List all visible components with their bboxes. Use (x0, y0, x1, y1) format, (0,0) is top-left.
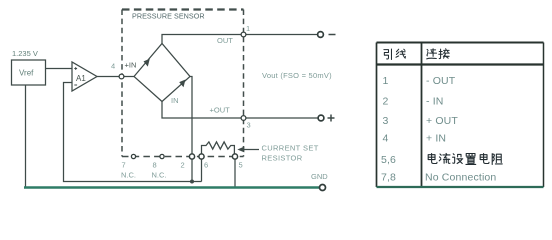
svg-text:6: 6 (204, 161, 208, 170)
svg-text:+OUT: +OUT (210, 106, 231, 115)
svg-text:5: 5 (239, 161, 243, 170)
svg-text:3: 3 (247, 121, 251, 130)
svg-text:GND: GND (311, 172, 328, 181)
svg-text:N.C.: N.C. (121, 171, 136, 180)
svg-text:+ OUT: + OUT (426, 115, 458, 127)
svg-text:7,8: 7,8 (381, 172, 396, 184)
svg-text:IN: IN (171, 96, 179, 105)
svg-text:RESISTOR: RESISTOR (262, 154, 303, 163)
svg-text:Vref: Vref (19, 69, 34, 78)
svg-text:5,6: 5,6 (381, 154, 396, 166)
svg-text:2: 2 (181, 161, 185, 170)
svg-text:A1: A1 (76, 74, 86, 83)
svg-text:2: 2 (383, 96, 389, 108)
svg-text:PRESSURE SENSOR: PRESSURE SENSOR (132, 12, 205, 21)
svg-text:- OUT: - OUT (426, 75, 456, 87)
svg-text:+IN: +IN (125, 61, 137, 70)
svg-text:+ IN: + IN (426, 133, 446, 145)
svg-text:3: 3 (383, 115, 389, 127)
svg-text:1: 1 (383, 75, 389, 87)
svg-text:CURRENT: CURRENT (262, 144, 301, 153)
svg-text:1: 1 (246, 24, 250, 33)
svg-text:4: 4 (111, 62, 115, 71)
svg-text:1.235 V: 1.235 V (12, 49, 38, 58)
svg-text:4: 4 (383, 133, 389, 145)
svg-text:No Connection: No Connection (425, 172, 496, 184)
svg-text:N.C.: N.C. (152, 171, 167, 180)
svg-text:Vout (FSO = 50mV): Vout (FSO = 50mV) (262, 71, 332, 80)
svg-text:7: 7 (122, 161, 126, 170)
svg-text:OUT: OUT (217, 36, 233, 45)
svg-text:8: 8 (153, 161, 157, 170)
svg-text:- IN: - IN (426, 96, 444, 108)
svg-text:SET: SET (303, 144, 319, 153)
